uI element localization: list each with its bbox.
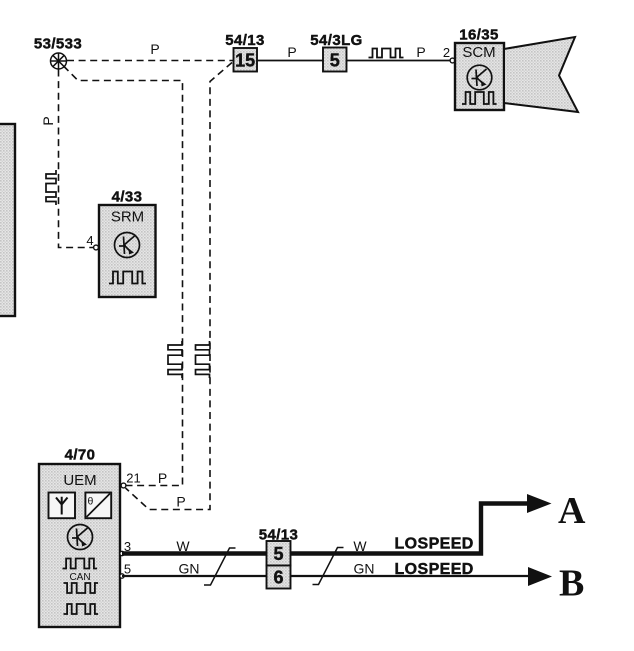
- svg-text:16/35: 16/35: [459, 27, 499, 44]
- connector 54/3LG pin 5 box: [323, 48, 347, 72]
- UEM pin 21 circle: [121, 483, 126, 488]
- lamp symbol 53/533 (circle with spokes): [51, 53, 67, 69]
- partial module block at left edge: [0, 124, 15, 316]
- wire: connector 54/13 pin15 down x=210 to UEM pin21 (dashed): [126, 63, 233, 510]
- svg-text:5: 5: [330, 51, 340, 71]
- svg-text:5: 5: [273, 544, 283, 564]
- svg-text:CAN: CAN: [69, 572, 90, 583]
- UEM pin 5 circle: [120, 574, 124, 578]
- svg-text:SRM: SRM: [111, 209, 144, 226]
- svg-text:2: 2: [443, 45, 450, 60]
- continuation flag/arrow from SCM: [504, 37, 578, 112]
- wire: 53/533 down to SRM pin4 (dashed, P): [59, 70, 94, 248]
- svg-text:P: P: [40, 116, 56, 125]
- wire: 53/533 diagonal to vertical run x=182.5 down to UEM pin21 (dashed): [64, 66, 183, 486]
- svg-text:UEM: UEM: [63, 472, 96, 489]
- svg-text:P: P: [158, 470, 167, 486]
- svg-text:P: P: [416, 44, 425, 60]
- svg-text:SCM: SCM: [462, 44, 495, 61]
- SRM pin 4 circle: [94, 245, 99, 250]
- svg-text:LOSPEED: LOSPEED: [395, 536, 474, 553]
- svg-text:B: B: [559, 563, 584, 605]
- SCM pulse symbol: [462, 92, 497, 104]
- connector 54/13 pin 15 box: [234, 48, 258, 72]
- arrowhead B: [528, 567, 552, 586]
- svg-text:54/13: 54/13: [225, 32, 265, 49]
- pin 2 circle: [450, 58, 455, 63]
- svg-text:GN: GN: [179, 561, 200, 577]
- twisted pair slash (right): [313, 548, 344, 585]
- wire: 54/3LG to SCM pin2 (solid): [347, 60, 453, 62]
- svg-text:W: W: [353, 538, 367, 554]
- svg-text:5: 5: [124, 562, 131, 577]
- UEM CAN pulse symbol (lower, inverted): [64, 583, 99, 593]
- pulse symbol on vertical wire: [46, 170, 56, 205]
- module 4/70 UEM box: [39, 464, 120, 627]
- SCM control-module K symbol: [467, 65, 492, 90]
- svg-text:15: 15: [235, 51, 255, 71]
- pulse symbol on wire: [369, 49, 404, 58]
- module 4/33 SRM box: [99, 205, 156, 297]
- wire: 53/533 to connector 54/13 pin15 (dashed, P): [67, 60, 233, 62]
- UEM pin 3 circle: [120, 551, 124, 555]
- svg-text:P: P: [176, 494, 185, 510]
- svg-text:21: 21: [126, 471, 140, 486]
- svg-text:4/70: 4/70: [65, 447, 96, 464]
- thick LOSPEED W wire: UEM pin3 to arrow A: [122, 504, 529, 554]
- UEM antenna icon: [49, 493, 76, 519]
- svg-text:53/533: 53/533: [34, 36, 82, 53]
- UEM control-module K symbol: [68, 525, 93, 550]
- svg-text:A: A: [558, 490, 586, 532]
- pulse symbol on x=210 dashed run: [196, 341, 210, 378]
- wire: pin15 to connector 54/3LG (solid, P): [257, 60, 323, 62]
- svg-text:W: W: [176, 538, 190, 554]
- arrowhead A: [527, 494, 552, 513]
- pulse symbol on x=182.5 dashed run: [168, 341, 182, 378]
- SRM pulse symbol: [109, 272, 146, 284]
- module 16/35 SCM box: [455, 43, 504, 110]
- UEM CAN pulse symbol (upper): [63, 559, 98, 569]
- thin LOSPEED GN wire: UEM pin5 to arrow B: [122, 575, 530, 577]
- svg-text:P: P: [287, 44, 296, 60]
- svg-text:6: 6: [273, 568, 283, 588]
- svg-text:54/3LG: 54/3LG: [310, 32, 362, 49]
- SRM control-module K symbol: [115, 233, 140, 258]
- svg-text:P: P: [150, 41, 159, 57]
- svg-text:GN: GN: [354, 561, 375, 577]
- svg-text:LOSPEED: LOSPEED: [395, 561, 474, 578]
- connector 54/13 pin 5 box: [267, 541, 291, 566]
- UEM pulse symbol (bottom): [64, 604, 99, 614]
- UEM temperature sensor icon: [85, 493, 111, 519]
- svg-text:4: 4: [86, 233, 93, 248]
- twisted pair slash (left): [204, 548, 236, 585]
- svg-text:θ: θ: [88, 496, 94, 508]
- svg-text:4/33: 4/33: [112, 189, 143, 206]
- connector 54/13 pin 6 box: [267, 566, 291, 589]
